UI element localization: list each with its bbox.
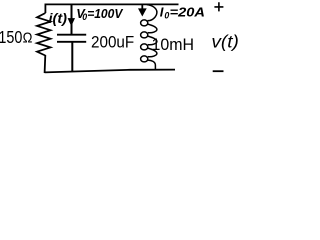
wire: left branch top lead — [44, 4, 46, 14]
inductor coil ring 4 — [141, 56, 148, 62]
wire: bottom rail — [45, 70, 175, 73]
capacitor C top plate — [57, 34, 86, 36]
svg-text:10mH: 10mH — [152, 36, 195, 54]
current arrow I0 head — [138, 8, 147, 16]
inductor coil ring 3 — [141, 44, 148, 50]
wire: capacitor bottom lead — [71, 42, 73, 71]
svg-text:i(t): i(t) — [49, 11, 68, 27]
inductor L 10mH coil spine arc 1 — [147, 5, 157, 21]
svg-text:v(t): v(t) — [211, 31, 239, 51]
svg-text:200uF: 200uF — [91, 33, 134, 51]
inductor coil ring 2 — [141, 32, 148, 38]
plus sign — [214, 2, 223, 11]
current arrow I0 shaft — [141, 4, 143, 10]
inductor coil ring 1 — [141, 20, 148, 26]
wire: left branch bottom lead — [44, 55, 47, 73]
inductor coil spine arc 2 — [148, 24, 157, 33]
capacitor C bottom plate — [57, 41, 86, 43]
inductor coil exit to bottom rail — [148, 60, 156, 70]
svg-text:=20A: =20A — [170, 4, 205, 19]
svg-text:150: 150 — [0, 27, 23, 47]
minus sign — [213, 70, 224, 72]
svg-text:I: I — [160, 4, 164, 19]
svg-text:Ω: Ω — [23, 31, 33, 47]
inductor coil spine arc 4 — [148, 48, 157, 57]
current arrow i(t) head — [68, 18, 75, 26]
inductor coil spine arc 3 — [148, 36, 157, 45]
resistor R 150ohm zigzag — [37, 13, 51, 56]
svg-text:=100V: =100V — [87, 6, 124, 21]
wire: capacitor top lead — [71, 4, 73, 34]
wire: top rail — [45, 3, 179, 5]
